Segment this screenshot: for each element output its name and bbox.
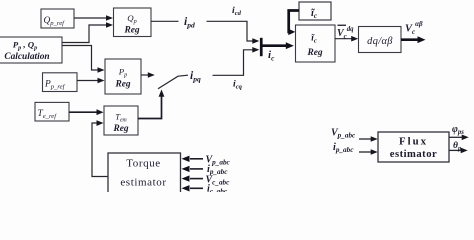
block Pp_ref reference input: [43, 73, 78, 92]
block Flux estimator: [378, 132, 449, 162]
block Qp Reg regulator: [114, 8, 152, 37]
label theta_p: [453, 141, 461, 152]
label i_c bold: [268, 49, 275, 62]
label i_pd: [184, 16, 195, 30]
label i_pq: [190, 70, 201, 84]
wire Calculation Qp output to Qp Reg: [62, 22, 113, 42]
svg-text:Calculation: Calculation: [4, 52, 49, 62]
block Qp_ref reference input: [41, 9, 74, 28]
wire i_c_abc input arrow to torque estimator: [182, 185, 204, 191]
block Tem Reg regulator: [104, 106, 138, 135]
wire i_c thick arrow from junction to ic Reg: [263, 42, 294, 49]
wire V_p_abc input arrow to torque estimator: [182, 156, 204, 162]
svg-text:estimator: estimator: [120, 177, 166, 189]
block dq/alpha-beta transform: [359, 27, 402, 53]
label V_c_abc (torque estimator): [206, 174, 231, 186]
wire Pp Reg output to switch contact: [141, 72, 155, 78]
label i_cd: [232, 5, 242, 17]
wire Tem Reg output up to switch contact: [138, 90, 164, 119]
label V_p_abc (flux estimator input): [331, 128, 356, 140]
label V_p_abc (torque estimator): [206, 155, 231, 167]
wire V_c alpha-beta thick output arrow: [401, 36, 426, 43]
svg-text:Reg: Reg: [112, 124, 128, 134]
label phi_ps: [452, 124, 464, 136]
wire i_p_abc arrow into flux estimator: [359, 149, 378, 155]
wire rotor angle output theta: [449, 148, 468, 154]
block Te_ref reference input: [35, 102, 69, 121]
label i_c_abc (torque estimator, cut at bottom): [207, 184, 228, 196]
svg-text:Reg: Reg: [123, 26, 139, 36]
wire ipq from switch to junction: [213, 47, 260, 75]
wire torque estimator feedback to Tem Reg: [92, 120, 108, 176]
wire feedback i_c tilde to ic Reg (thick): [288, 11, 299, 36]
block Torque estimator (cut at bottom edge): [108, 153, 181, 199]
label i_p_abc (flux estimator input): [333, 142, 354, 154]
wire Calculation Pp output to Pp Reg: [62, 46, 105, 73]
svg-text:Reg: Reg: [114, 80, 130, 90]
wire V_c_abc input arrow to torque estimator: [182, 175, 204, 181]
wire i_p_abc input arrow to torque estimator: [182, 166, 204, 172]
svg-text:Torque: Torque: [126, 158, 161, 170]
switch blade selecting ipq source: [158, 75, 188, 89]
wire Vc_dq from ic Reg to dq/ab block: [335, 36, 358, 42]
wire V_p_abc arrow into flux estimator: [359, 136, 378, 142]
wire ipd from Qp Reg to junction: [151, 21, 259, 44]
label i_cq: [233, 79, 243, 91]
wire Pp_ref to Pp Reg: [77, 78, 105, 84]
block Pp Reg regulator: [105, 59, 141, 94]
label V_c^dq with overbar: [337, 25, 354, 41]
svg-text:Flux: Flux: [399, 136, 428, 148]
wire Qp_ref to Qp Reg: [74, 15, 113, 21]
block ic Reg current regulator: [296, 25, 336, 62]
block Pp Qp Calculation (cut at left edge): [0, 37, 62, 63]
wire flux angle output phi: [449, 135, 469, 141]
label i_p_abc (torque estimator): [207, 164, 228, 176]
block i_c tilde measured current: [299, 2, 331, 20]
svg-text:estimator: estimator: [390, 149, 437, 160]
junction summing bar: [260, 38, 263, 56]
svg-text:Reg: Reg: [306, 48, 322, 58]
svg-text:dq/αβ: dq/αβ: [367, 36, 393, 47]
wire Te_ref to Tem Reg: [69, 109, 104, 115]
label V_c^alpha-beta: [405, 20, 423, 36]
